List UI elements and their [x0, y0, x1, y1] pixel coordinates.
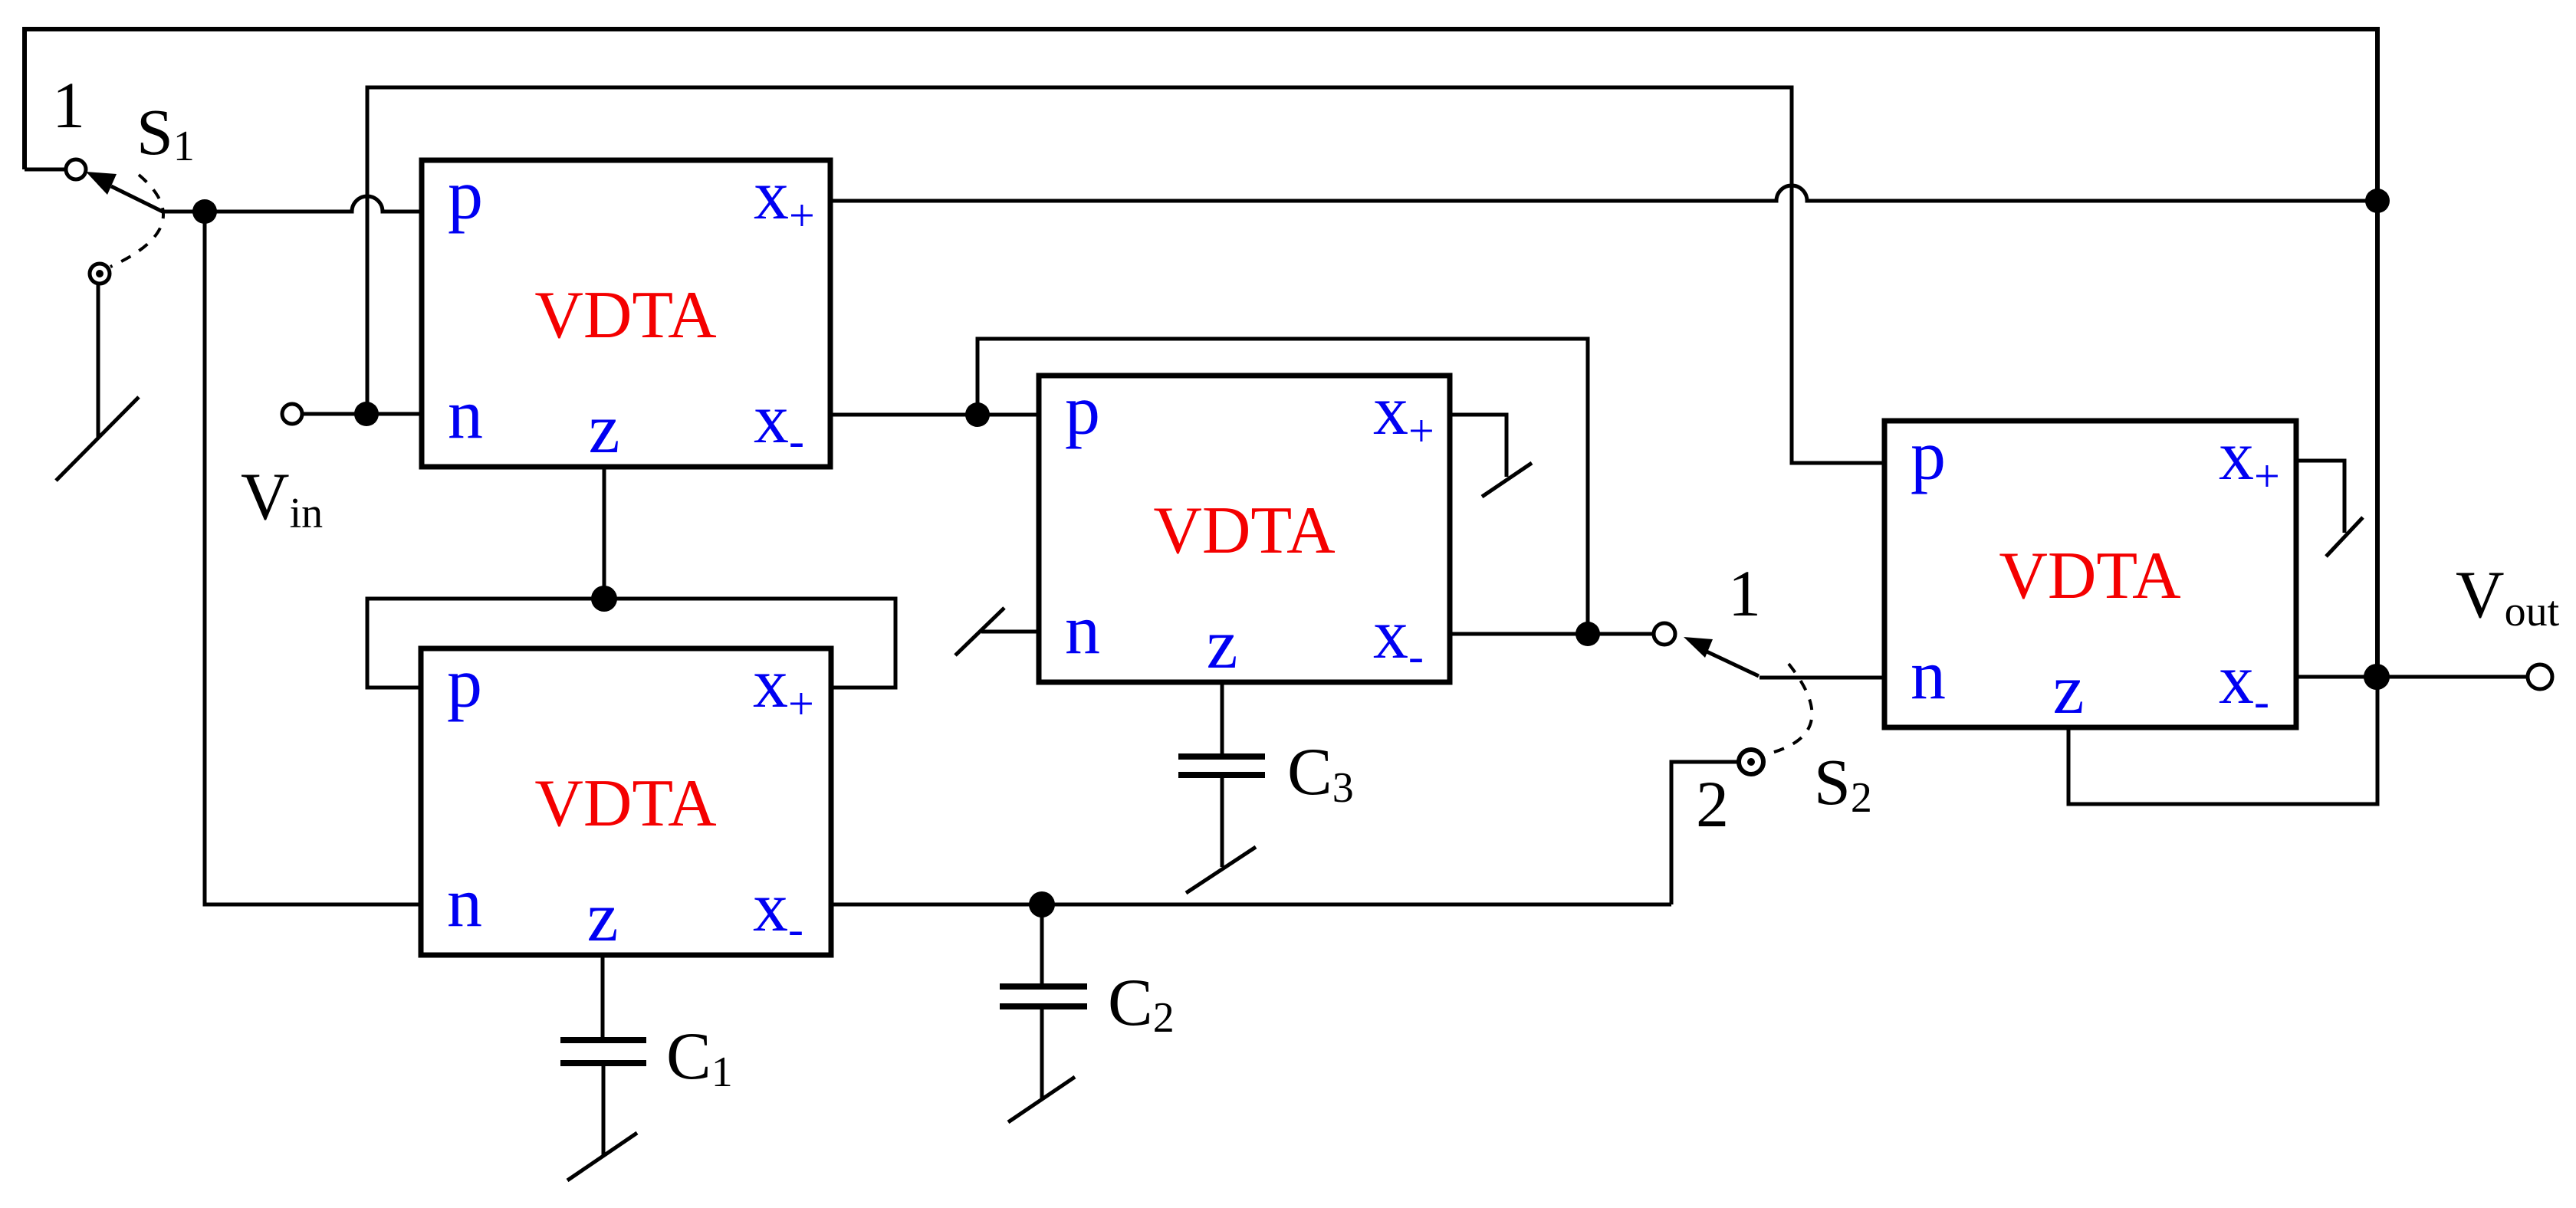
- svg-text:n: n: [1065, 590, 1100, 668]
- C1 ground stub: [602, 1063, 606, 1156]
- VDTA4 box: [1884, 421, 2296, 727]
- svg-text:VDTA: VDTA: [1153, 494, 1335, 568]
- svg-text:1: 1: [52, 68, 85, 142]
- wire VDTA1 x+ to outer rail (hop over VDTA4 p feed): [830, 185, 2377, 201]
- svg-text:n: n: [447, 863, 482, 941]
- svg-text:p: p: [447, 644, 482, 722]
- node VDTA1 z on VDTA3 loop: [591, 586, 617, 612]
- svg-text:z: z: [589, 389, 620, 468]
- VDTA2 x+ ground stub: [1450, 415, 1506, 477]
- svg-text:z: z: [2053, 650, 2085, 728]
- input terminal circle Vin: [282, 404, 302, 424]
- VDTA3 p/x+ loop wire: [367, 599, 895, 688]
- switch S2 dashed throw arc: [1766, 664, 1812, 754]
- VDTA2 n ground slash: [955, 608, 1004, 655]
- C1 ground slash: [567, 1133, 637, 1180]
- svg-text:p: p: [1911, 416, 1946, 494]
- capacitor C2 bottom plate: [1000, 1003, 1087, 1009]
- C2 ground slash: [1008, 1077, 1075, 1122]
- svg-text:p: p: [448, 156, 483, 234]
- svg-text:VDTA: VDTA: [534, 766, 716, 841]
- switch S2 lever: [1707, 652, 1759, 676]
- wire node A down to VDTA3 n: [205, 212, 421, 904]
- C2 ground stub: [1040, 1006, 1044, 1098]
- switch S1 position-1 stub: [25, 168, 66, 172]
- svg-text:z: z: [587, 878, 619, 956]
- wire VDTA4 z loop: [2068, 677, 2377, 804]
- bottom rail: VDTA3 x- wire: [831, 903, 1671, 907]
- node VDTA4 x- output junction: [2364, 664, 2390, 690]
- svg-text:z: z: [1207, 605, 1238, 683]
- node Vin feedback junction: [354, 402, 379, 426]
- wire S1 common to VDTA1 p (hop over Vin feed): [163, 196, 422, 212]
- node VDTA1 x+ on outer rail: [2365, 189, 2390, 213]
- capacitor C3 bottom plate: [1178, 772, 1265, 778]
- svg-text:n: n: [1911, 635, 1946, 714]
- wire VDTA2 x- to p feedback: [978, 339, 1588, 634]
- VDTA3 z wire: [601, 955, 605, 1040]
- VDTA2 x+ ground slash: [1482, 463, 1532, 497]
- VDTA1 z wire: [603, 467, 606, 599]
- C3 ground slash: [1186, 847, 1256, 893]
- VDTA2 n ground stub: [981, 630, 1039, 634]
- svg-text:2: 2: [1696, 767, 1729, 841]
- switch S2 position-1 circle: [1654, 623, 1675, 645]
- VDTA3 box: [421, 648, 831, 955]
- wire VDTA2 x- to switch S2: [1450, 632, 1654, 636]
- output terminal circle Vout: [2528, 665, 2552, 689]
- svg-text:1: 1: [1728, 556, 1761, 630]
- capacitor C1 bottom plate: [560, 1060, 646, 1066]
- switch S1 arrowhead: [86, 172, 117, 195]
- capacitor C3 top plate: [1178, 753, 1265, 760]
- wire outer feedback top rail: [25, 29, 2377, 677]
- switch S1 lever: [111, 186, 163, 212]
- node VDTA2 p feedback junction: [965, 402, 990, 427]
- VDTA1 box: [422, 160, 830, 467]
- wire second feedback (Vin node to VDTA4 p): [367, 87, 1884, 463]
- switch S2 position-2 center dot: [1747, 758, 1755, 766]
- switch S1 position-1 circle: [66, 159, 86, 179]
- switch S2 position-2 circle: [1739, 750, 1763, 774]
- capacitor C1 top plate: [560, 1037, 646, 1043]
- switch S1 position-2 ground slash: [56, 397, 139, 481]
- wire S2 common to VDTA4 n: [1760, 676, 1884, 680]
- C3 ground stub: [1221, 775, 1224, 867]
- switch S1 position-2 center dot: [96, 270, 103, 277]
- wire VDTA1 x- to VDTA2 p: [830, 413, 1039, 417]
- switch S1 position-2 circle: [90, 264, 110, 284]
- wire Vin to VDTA1 n: [302, 412, 422, 416]
- wire S2 position-2 to bottom rail: [1671, 762, 1738, 904]
- svg-text:n: n: [448, 375, 483, 453]
- svg-text:p: p: [1065, 371, 1100, 449]
- VDTA2 z wire: [1221, 682, 1224, 757]
- node VDTA2 x- feedback junction: [1575, 622, 1600, 646]
- svg-text:VDTA: VDTA: [1999, 539, 2180, 613]
- VDTA2 box: [1039, 376, 1450, 682]
- VDTA4 x+ ground slash: [2326, 517, 2363, 556]
- svg-text:VDTA: VDTA: [534, 278, 716, 353]
- switch S1 dashed throw arc: [110, 175, 163, 267]
- switch S1 position-2 ground stub: [97, 284, 100, 438]
- switch S2 arrowhead: [1684, 637, 1713, 658]
- node C2 junction: [1029, 891, 1055, 917]
- wire VDTA4 x- to Vout: [2296, 675, 2528, 679]
- capacitor C2 top stub: [1040, 904, 1044, 986]
- node A: S1 common: [192, 199, 217, 224]
- VDTA4 x+ ground stub: [2296, 461, 2344, 533]
- capacitor C2 top plate: [1000, 983, 1087, 990]
